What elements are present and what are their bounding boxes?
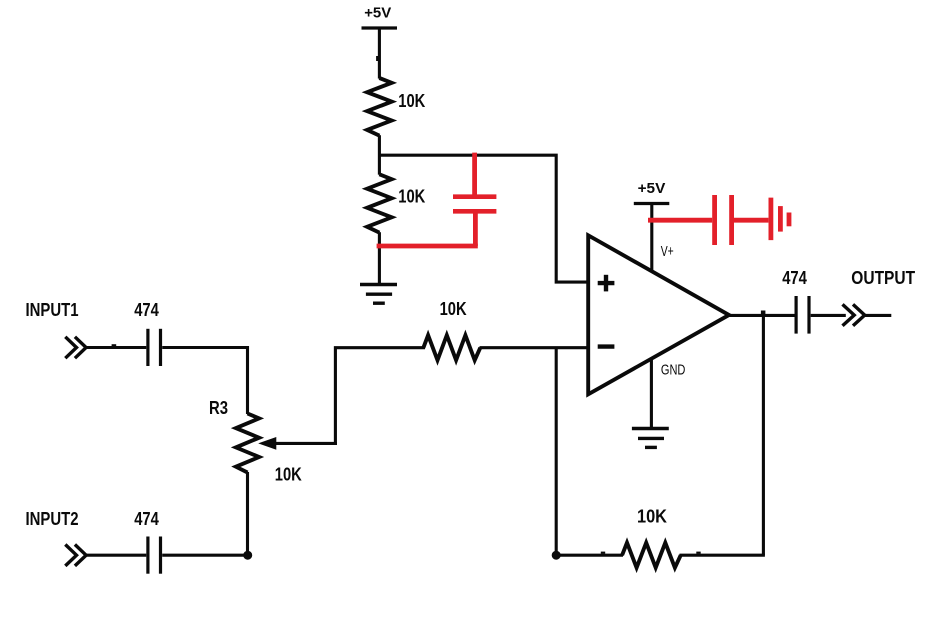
wire output end	[863, 314, 891, 317]
junction stub at feedback tap	[761, 311, 766, 315]
wire INPUT2 to C3	[85, 554, 147, 557]
capacitor C3 474 (input2 coupling)	[134, 509, 160, 574]
svg-text:+5V: +5V	[364, 4, 391, 21]
wire feedback right vertical	[762, 315, 765, 555]
connector OUTPUT (chevron)	[843, 304, 865, 325]
svg-text:474: 474	[782, 268, 807, 288]
grid tick right of R5	[696, 552, 700, 554]
svg-text:10K: 10K	[275, 464, 302, 484]
wire pot bottom to junction	[246, 472, 249, 555]
svg-text:+5V: +5V	[638, 180, 666, 197]
resistor R5 10K (feedback)	[622, 506, 681, 567]
connector INPUT1 (chevron)	[65, 337, 86, 358]
wire R1 to R2 through node	[378, 135, 381, 175]
svg-text:OUTPUT: OUTPUT	[851, 268, 915, 288]
power +5V supply rail (divider)	[362, 4, 398, 28]
junction node (input2 + pot)	[243, 551, 252, 560]
op-amp U1 triangle	[588, 235, 729, 394]
wire C2 to pot top corner	[162, 348, 247, 415]
svg-text:10K: 10K	[440, 299, 467, 319]
ground (op-amp)	[632, 429, 669, 448]
ground (divider)	[360, 285, 397, 304]
junction node (feedback / inverting input)	[552, 551, 561, 560]
op-amp - symbol	[598, 344, 615, 348]
svg-text:10K: 10K	[398, 187, 425, 207]
wiper arrow of R3	[260, 438, 337, 449]
wire GND pin	[650, 359, 653, 429]
svg-text:INPUT1: INPUT1	[26, 300, 79, 320]
wire R2 to ground	[378, 232, 381, 284]
svg-text:10K: 10K	[637, 506, 667, 526]
wire wiper to inverting input rail	[335, 348, 425, 444]
wire op-amp output	[729, 314, 795, 317]
svg-text:GND: GND	[661, 362, 686, 378]
connector INPUT2 (chevron)	[65, 545, 86, 566]
grid tick left of R5	[601, 552, 605, 554]
wire V+ pin	[650, 204, 653, 272]
wire C3 to junction	[162, 554, 248, 557]
capacitor C1 (red, divider bypass)	[453, 153, 496, 246]
node wire: divider midpoint to op-amp + input	[379, 155, 588, 282]
potentiometer R3 body	[209, 398, 302, 484]
svg-text:INPUT2: INPUT2	[26, 509, 79, 529]
svg-text:474: 474	[134, 300, 159, 320]
svg-text:V+: V+	[661, 244, 674, 260]
resistor R4 10K (input to inverting)	[423, 299, 480, 360]
wire INPUT1 to C2	[85, 346, 147, 349]
wire +5V to R1	[378, 28, 381, 79]
ground (red, sideways at C4)	[771, 198, 789, 241]
grid tick on +5V wire	[376, 56, 378, 61]
grid tick on INPUT1 wire	[112, 344, 117, 346]
wire R5 to right vertical	[680, 554, 765, 557]
resistor R1 10K (upper divider)	[367, 78, 425, 136]
wire feedback left vertical	[555, 348, 558, 556]
wire junction to R5	[556, 554, 623, 557]
wire R4 to op-amp - input	[480, 346, 589, 349]
svg-text:474: 474	[134, 509, 159, 529]
capacitor C5 474 (output coupling)	[782, 268, 809, 334]
wire (red) cap bottom to R2 bottom	[377, 244, 478, 249]
capacitor C4 (red, op-amp bypass)	[648, 195, 768, 245]
capacitor C2 474 (input1 coupling)	[134, 300, 160, 366]
op-amp + symbol	[598, 275, 615, 292]
svg-text:R3: R3	[209, 398, 228, 418]
power +5V supply (op-amp)	[634, 180, 670, 203]
svg-text:10K: 10K	[398, 91, 425, 111]
resistor R2 10K (lower divider)	[367, 174, 425, 232]
wire C5 to output connector	[811, 314, 846, 317]
